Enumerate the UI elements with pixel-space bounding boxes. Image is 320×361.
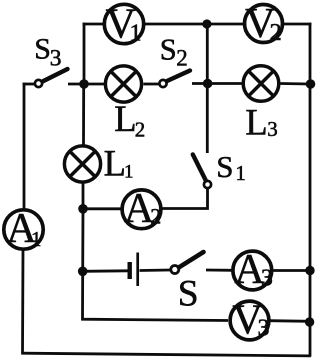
svg-text:S: S	[216, 149, 233, 184]
ammeter A2 circle	[122, 190, 161, 229]
junction node S2/S1 branch	[203, 79, 213, 89]
wire A2 to left junction	[84, 207, 122, 210]
wire lamp L1 down to A2 junction	[82, 184, 85, 211]
wire left rail lower (A1 to bottom-left corner)	[21, 250, 24, 355]
svg-text:1: 1	[31, 227, 42, 251]
svg-text:2: 2	[135, 118, 146, 142]
wire junction to lamp L2	[83, 83, 104, 86]
svg-text:S: S	[178, 273, 199, 314]
wire S blade tip to A3	[206, 269, 233, 272]
wire V2 to top-right corner	[283, 23, 311, 26]
ammeter A3 circle	[233, 251, 272, 290]
wire left-mid vertical A2 junction to battery junction	[81, 208, 84, 272]
lamp L3	[243, 66, 279, 102]
junction node A2 left	[78, 204, 88, 214]
junction node top (V1-V2 wire to S1 branch)	[202, 19, 211, 28]
svg-text:2: 2	[150, 203, 161, 228]
wire left rail upper (S3 corner to A1)	[23, 83, 26, 209]
voltmeter V3 circle	[230, 301, 269, 340]
junction node V3 right	[305, 317, 314, 326]
svg-text:1: 1	[124, 161, 134, 182]
switch S	[171, 252, 204, 274]
wire battery junction to battery plate	[82, 269, 128, 272]
wire V3 to right rail	[270, 319, 311, 322]
svg-text:S: S	[160, 32, 177, 66]
wire lamp L3 to right rail	[281, 82, 311, 85]
wire lamp L2 to switch S2	[144, 83, 160, 86]
voltmeter V2 circle	[245, 5, 283, 43]
svg-text:S: S	[34, 33, 51, 66]
wire junction down to lamp L1	[82, 83, 85, 145]
svg-text:1: 1	[129, 19, 141, 46]
wire S3 blade tip to junction	[68, 83, 85, 86]
wire vertical top-left corner to junction	[83, 23, 86, 85]
voltmeter V1 circle	[104, 4, 143, 43]
wire top-left stub to V1	[83, 23, 105, 26]
svg-text:1: 1	[235, 161, 246, 185]
wire V1 to V2	[144, 23, 243, 26]
wire left-mid vertical battery junction down to V3 corner	[83, 271, 229, 321]
wire vertical from top junction down through S2 junction to S1	[206, 24, 209, 153]
svg-text:3: 3	[258, 315, 270, 341]
svg-text:2: 2	[176, 45, 188, 70]
switch S1	[193, 155, 211, 189]
svg-text:3: 3	[261, 266, 273, 292]
wire battery to switch S	[140, 269, 171, 272]
svg-text:3: 3	[50, 46, 62, 72]
svg-text:L: L	[104, 142, 126, 183]
wire right rail	[309, 23, 312, 357]
switch S3	[35, 69, 68, 87]
wire bottom rail	[22, 353, 311, 356]
wire S3 corner to switch circle	[23, 83, 35, 86]
lamp L1	[64, 146, 100, 182]
svg-text:L: L	[114, 98, 136, 139]
wire A3 to right rail	[274, 269, 311, 272]
junction node S3/L2/L1	[79, 79, 89, 89]
junction node battery left	[78, 267, 88, 277]
lamp L2	[105, 66, 141, 102]
svg-text:3: 3	[267, 117, 278, 141]
ammeter A1 circle	[4, 210, 43, 249]
svg-text:2: 2	[270, 19, 282, 46]
junction node L3 right	[306, 79, 316, 89]
junction node A3 right	[305, 266, 314, 275]
switch S2	[159, 71, 190, 88]
wire S2 blade tip to junction	[192, 82, 209, 85]
battery cell	[130, 253, 138, 287]
wire junction to lamp L3	[207, 82, 242, 85]
wire S1 circle down and left to A2	[163, 189, 208, 209]
svg-text:L: L	[245, 102, 267, 143]
